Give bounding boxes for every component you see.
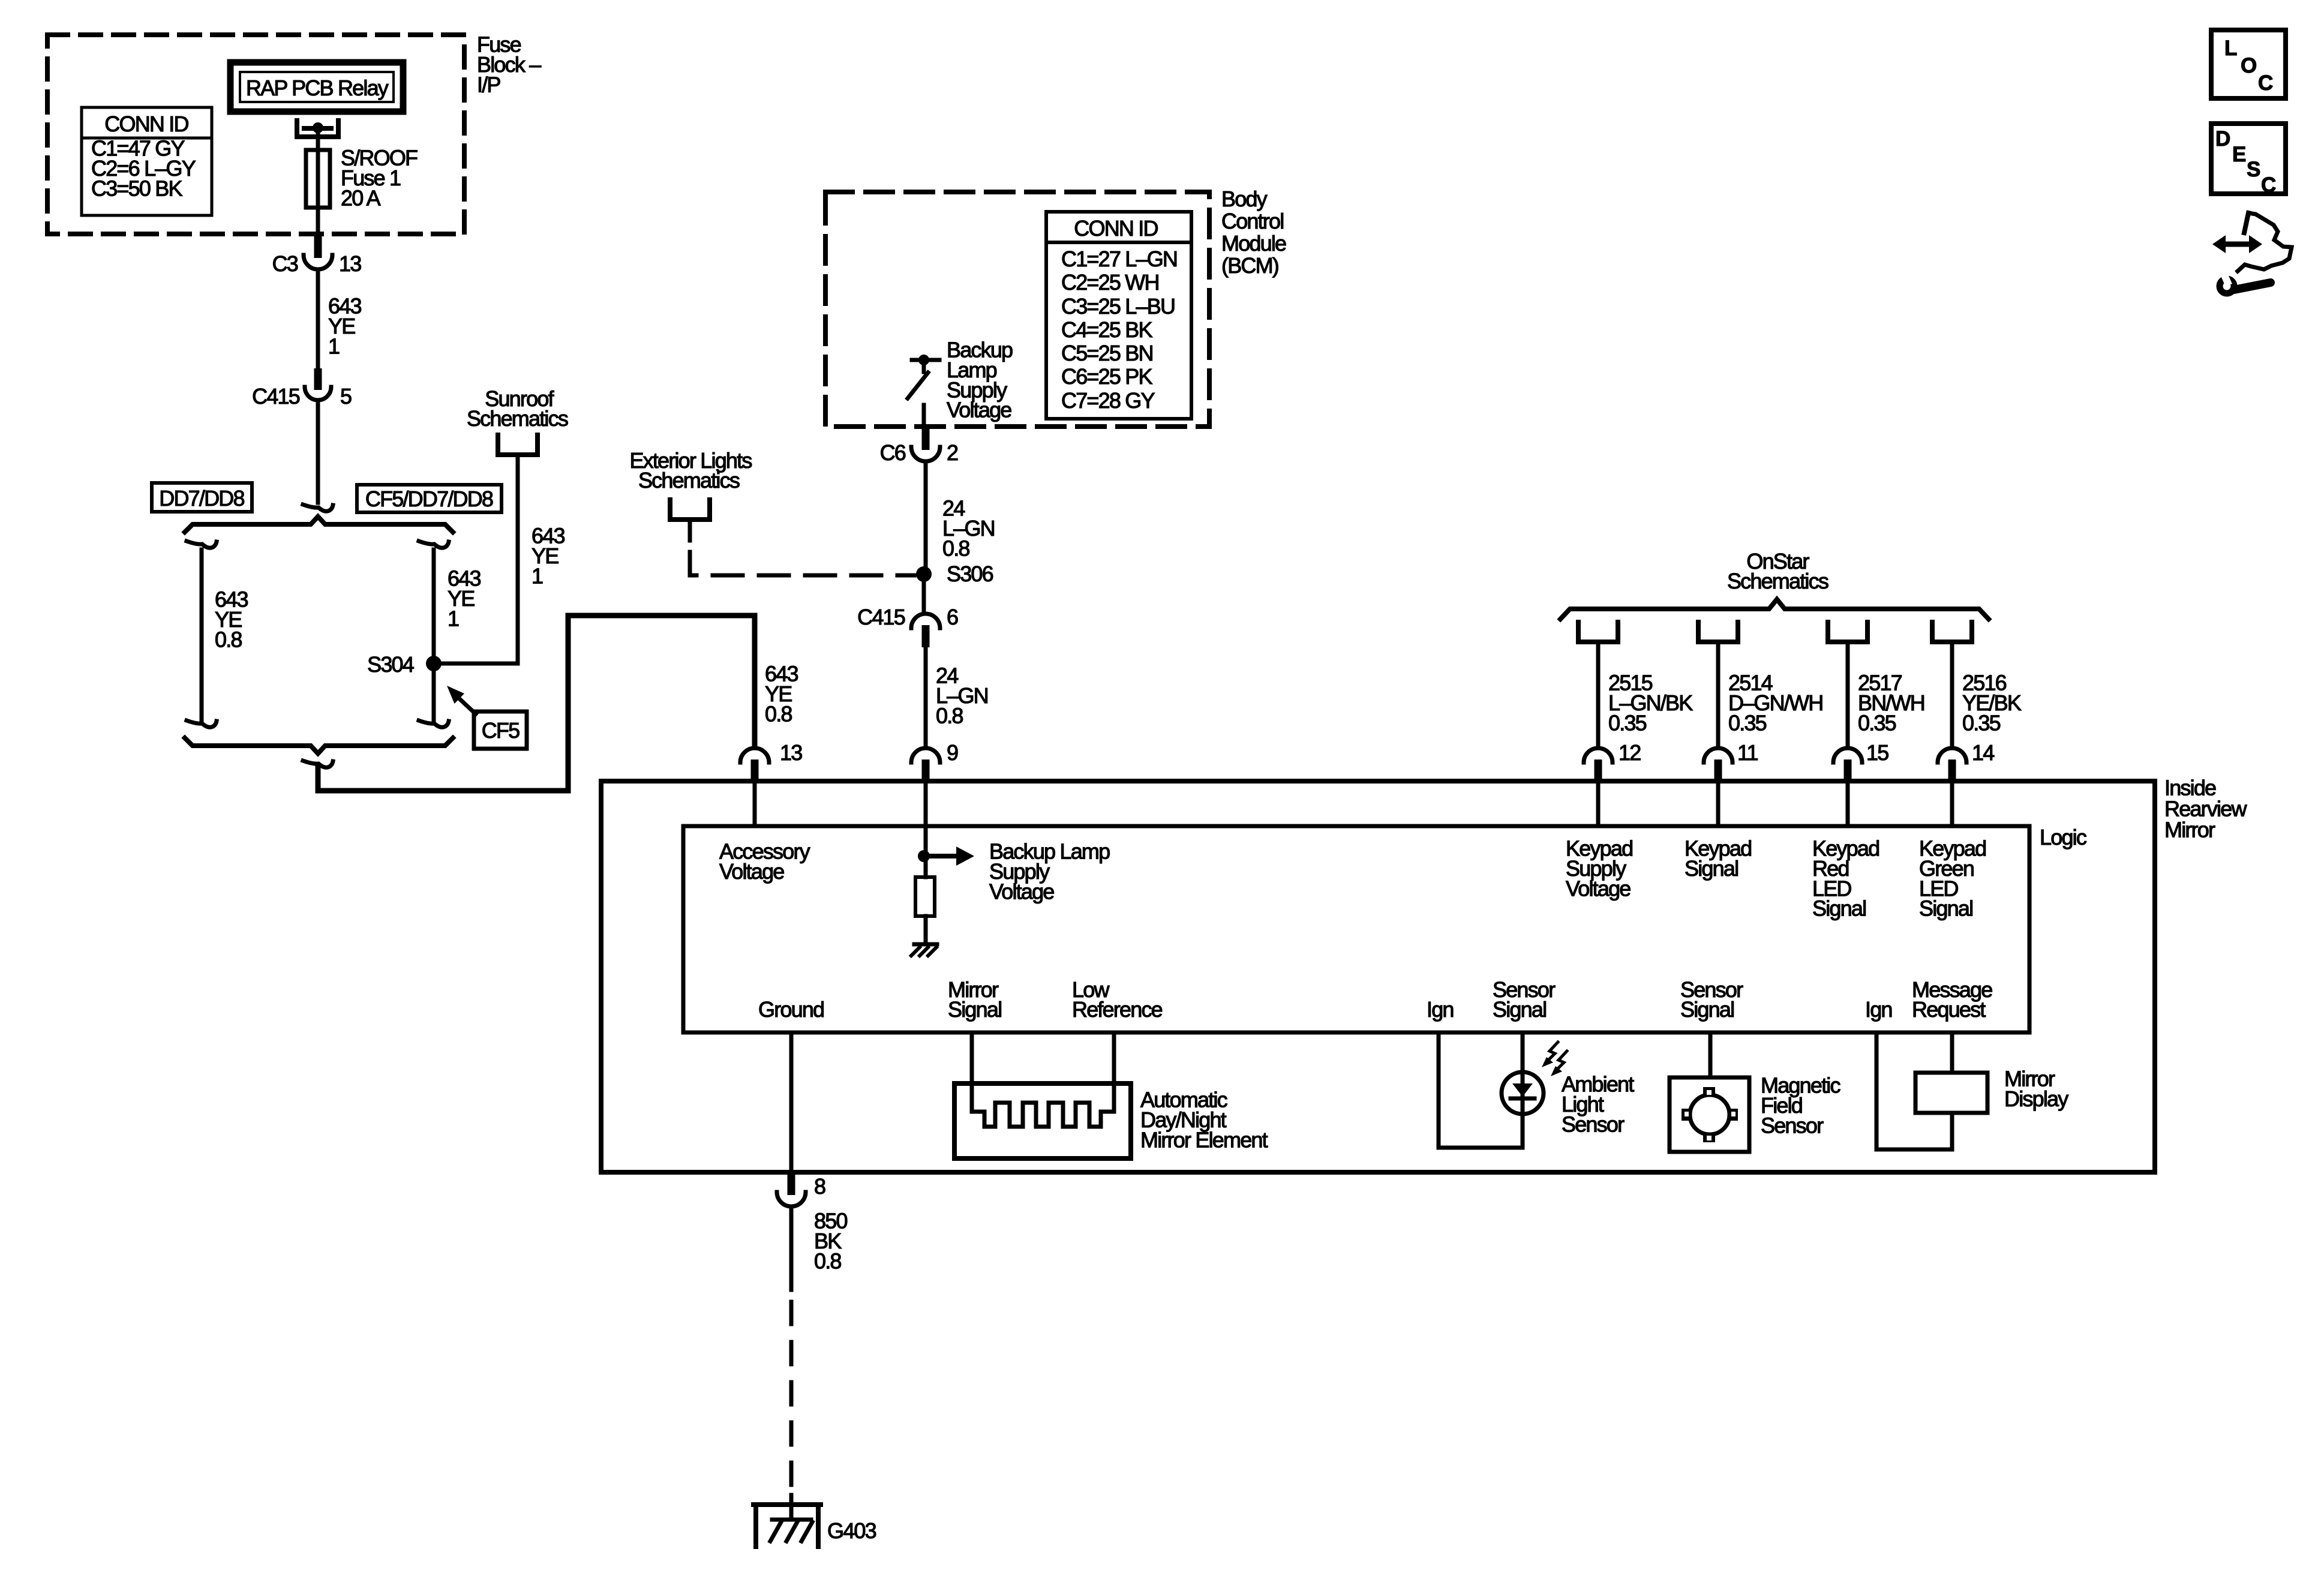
svg-text:12: 12	[1619, 740, 1641, 765]
label Low Reference	[1072, 977, 1163, 1022]
svg-text:CONN ID: CONN ID	[104, 112, 188, 136]
label Body Control Module (BCM)	[1221, 187, 1286, 278]
OnStar brace	[1560, 599, 1989, 619]
wire S304 to sunroof schematics	[434, 457, 518, 664]
label S/ROOF Fuse 1 20 A	[341, 146, 418, 211]
internal ground symbol	[911, 944, 937, 956]
svg-text:15: 15	[1866, 740, 1888, 765]
label Inside Rearview Mirror	[2164, 776, 2247, 842]
svg-text:CF5/DD7/DD8: CF5/DD7/DD8	[365, 487, 493, 511]
svg-text:C7=28 GY: C7=28 GY	[1061, 388, 1155, 413]
svg-text:Control: Control	[1221, 209, 1283, 233]
svg-text:C415: C415	[252, 384, 300, 409]
label Ambient Light Sensor	[1562, 1072, 1634, 1137]
label Ground	[758, 997, 824, 1022]
OnStar bracket (circuit 2515)	[1578, 622, 1618, 642]
label Ign (display)	[1865, 997, 1892, 1022]
wire resistor to internal ground	[924, 916, 928, 942]
svg-text:Mirror: Mirror	[2164, 818, 2215, 842]
connector C415 pin 6	[857, 605, 958, 647]
svg-text:DD7/DD8: DD7/DD8	[159, 486, 244, 511]
adjust mirror icon	[2212, 213, 2292, 293]
svg-text:CONN ID: CONN ID	[1074, 216, 1158, 241]
label Keypad Signal	[1685, 836, 1751, 881]
label Accessory Voltage	[719, 839, 810, 884]
mirror display box	[1915, 1032, 1987, 1149]
svg-text:C6=25 PK: C6=25 PK	[1061, 364, 1152, 389]
svg-text:L: L	[2224, 37, 2237, 60]
connector C3 pin 13	[272, 236, 362, 276]
svg-text:0.8: 0.8	[936, 703, 963, 728]
label 2514 D–GN/WH 0.35	[1728, 671, 1822, 736]
svg-text:6: 6	[947, 605, 958, 629]
label Backup Lamp Supply Voltage (logic)	[989, 839, 1110, 904]
svg-text:Voltage: Voltage	[1566, 876, 1631, 900]
splice S306	[916, 562, 993, 586]
label 643 YE 0.8 (accessory feed)	[765, 662, 798, 727]
pin 12 connector (mirror)	[1584, 740, 1641, 826]
dashed wire to S306	[690, 552, 914, 575]
svg-text:0.8: 0.8	[215, 627, 242, 652]
label Logic	[2040, 825, 2087, 849]
label Sensor Signal (ambient)	[1493, 977, 1556, 1022]
svg-text:Signal: Signal	[1812, 896, 1866, 921]
svg-text:Schematics: Schematics	[467, 406, 568, 431]
svg-text:13: 13	[339, 251, 361, 276]
wire 2516 YE/BK 0.35	[1950, 644, 1954, 745]
relay pin socket with junction dot	[297, 121, 338, 137]
magnetic field sensor	[1670, 1077, 1749, 1152]
wire 2517 BN/WH 0.35	[1846, 644, 1850, 745]
fuse block dashed box (Fuse Block - I/P)	[47, 35, 464, 234]
label 643 YE 1 (sunroof wire)	[532, 524, 565, 589]
label Message Request	[1912, 977, 1992, 1022]
splice S304	[367, 652, 442, 677]
OnStar bracket (circuit 2516)	[1932, 622, 1972, 642]
wire option DD7/DD8 (643 YE 0.8)	[187, 541, 217, 727]
label Backup Lamp Supply Voltage (switch)	[947, 338, 1013, 422]
label Fuse Block - I/P	[477, 32, 541, 97]
fuse block CONN ID table	[82, 107, 212, 215]
svg-text:1: 1	[532, 563, 543, 588]
svg-text:C3=25 L–BU: C3=25 L–BU	[1061, 294, 1175, 319]
pin 13 connector (mirror)	[740, 740, 802, 826]
svg-text:0.8: 0.8	[942, 536, 969, 560]
BCM dashed box (Body Control Module)	[825, 192, 1209, 427]
svg-text:C4=25 BK: C4=25 BK	[1061, 317, 1152, 342]
svg-text:Ign: Ign	[1865, 997, 1892, 1022]
label Exterior Lights Schematics	[629, 448, 752, 493]
label box DD7/DD8	[152, 483, 252, 512]
svg-text:S: S	[2247, 158, 2260, 181]
svg-text:0.8: 0.8	[814, 1248, 841, 1273]
svg-text:14: 14	[1972, 740, 1994, 765]
svg-text:Mirror Element: Mirror Element	[1140, 1127, 1268, 1152]
DESC icon box	[2211, 124, 2286, 197]
merge brace	[185, 738, 453, 767]
svg-text:C3=50 BK: C3=50 BK	[91, 176, 182, 200]
wires to mirror element + heater comb	[972, 1032, 1114, 1127]
svg-text:C: C	[2258, 71, 2273, 95]
Inside Rearview Mirror box	[601, 781, 2155, 1172]
label 2515 L–GN/BK 0.35	[1608, 671, 1693, 736]
LOC icon box	[2211, 30, 2286, 98]
svg-text:Signal: Signal	[1919, 896, 1972, 921]
wire merge to mirror pin 13	[318, 616, 755, 791]
label Automatic Day/Night Mirror Element	[1140, 1088, 1268, 1152]
svg-text:C415: C415	[857, 605, 905, 629]
svg-text:1: 1	[448, 606, 459, 631]
svg-text:Signal: Signal	[1680, 997, 1734, 1022]
label Keypad Red LED Signal	[1812, 836, 1879, 921]
svg-text:0.35: 0.35	[1608, 710, 1647, 735]
wire 2514 D–GN/WH 0.35	[1716, 644, 1721, 745]
svg-text:Sensor: Sensor	[1761, 1113, 1824, 1137]
label 643 YE 0.8	[215, 587, 248, 652]
wire below C415-5	[303, 402, 333, 511]
wire 24 L-GN 0.8 (C6 to S306)	[924, 463, 928, 566]
resistor (backup lamp feed)	[915, 877, 935, 916]
svg-text:Signal: Signal	[948, 997, 1001, 1022]
svg-text:S304: S304	[367, 652, 414, 677]
wire 24 L-GN 0.8 (to pin 9)	[924, 647, 928, 745]
wire 850 BK 0.8	[789, 1208, 794, 1290]
svg-text:Schematics: Schematics	[638, 468, 740, 493]
svg-text:C5=25 BN: C5=25 BN	[1061, 341, 1153, 365]
ambient light sensor (photodiode)	[1502, 1032, 1544, 1148]
label 24 L-GN 0.8	[942, 496, 995, 561]
svg-text:Signal: Signal	[1685, 856, 1738, 881]
svg-text:RAP PCB Relay: RAP PCB Relay	[246, 76, 389, 100]
svg-text:0.35: 0.35	[1858, 710, 1896, 735]
svg-text:Ground: Ground	[758, 997, 824, 1022]
pin 8 connector (ground)	[777, 1173, 825, 1206]
label Mirror Display	[2004, 1067, 2068, 1111]
svg-text:(BCM): (BCM)	[1221, 253, 1278, 278]
label OnStar Schematics	[1727, 549, 1828, 593]
label Keypad Supply Voltage	[1566, 836, 1632, 901]
svg-text:Reference: Reference	[1072, 997, 1163, 1022]
svg-text:E: E	[2232, 143, 2245, 166]
svg-text:8: 8	[814, 1174, 825, 1199]
svg-text:0.35: 0.35	[1728, 710, 1767, 735]
svg-text:Request: Request	[1912, 997, 1986, 1022]
ground wire inside mirror box	[789, 1032, 794, 1172]
svg-text:I/P: I/P	[477, 72, 500, 97]
pin 14 connector (mirror)	[1938, 740, 1994, 826]
junction dot + arrow Backup Lamp Supply Voltage	[918, 826, 974, 877]
OnStar bracket (circuit 2517)	[1828, 622, 1867, 642]
BCM CONN ID table	[1046, 212, 1191, 419]
svg-text:2: 2	[947, 440, 958, 465]
svg-text:S306: S306	[947, 562, 993, 586]
options brace (DD7/DD8 vs CF5/DD7/DD8)	[185, 517, 453, 532]
label Sunroof Schematics	[467, 386, 568, 431]
wire Ign to display bottom	[1876, 1032, 1952, 1149]
wire option CF5/DD7/DD8 (643 YE 1)	[419, 541, 449, 727]
connector C6 pin 2	[880, 428, 958, 465]
pin 9 connector (mirror)	[911, 740, 958, 826]
exterior lights bracket	[670, 500, 710, 541]
svg-text:5: 5	[340, 384, 352, 409]
svg-text:Voltage: Voltage	[989, 879, 1054, 903]
svg-text:Voltage: Voltage	[719, 859, 784, 884]
svg-text:Display: Display	[2004, 1086, 2068, 1111]
svg-text:13: 13	[780, 740, 802, 765]
wire relay to fuse	[316, 128, 320, 150]
svg-text:1: 1	[328, 334, 340, 358]
svg-text:Module: Module	[1221, 231, 1286, 256]
svg-text:G403: G403	[827, 1518, 876, 1543]
svg-text:0.35: 0.35	[1962, 710, 2001, 735]
svg-text:D: D	[2215, 127, 2230, 151]
svg-text:Signal: Signal	[1493, 997, 1546, 1022]
backup lamp switch (in BCM)	[908, 355, 939, 430]
wire S306 to C415-6	[922, 574, 926, 611]
label Ign (ambient)	[1427, 997, 1454, 1022]
svg-text:Body: Body	[1221, 187, 1268, 211]
pin 11 connector (mirror)	[1704, 740, 1758, 826]
wire 2515 L–GN/BK 0.35	[1596, 644, 1601, 745]
svg-text:C: C	[2261, 173, 2276, 197]
svg-text:Ign: Ign	[1427, 997, 1454, 1022]
wire to magnetic field sensor	[1709, 1032, 1713, 1077]
label 24 L-GN 0.8 (lower)	[936, 664, 988, 728]
wire Ign to sensor bottom	[1439, 1032, 1523, 1148]
svg-text:Sensor: Sensor	[1562, 1112, 1625, 1136]
OnStar bracket (circuit 2514)	[1698, 622, 1738, 642]
svg-text:C3: C3	[272, 251, 298, 276]
relay name box RAP PCB Relay	[230, 62, 403, 112]
pin 15 connector (mirror)	[1833, 740, 1888, 826]
svg-text:Schematics: Schematics	[1727, 569, 1828, 593]
label Keypad Green LED Signal	[1919, 836, 1986, 921]
svg-text:C6: C6	[880, 440, 906, 465]
svg-text:0.8: 0.8	[765, 701, 792, 726]
automatic day/night mirror element box	[954, 1083, 1131, 1158]
sunroof schematics bracket	[498, 435, 538, 455]
svg-text:11: 11	[1737, 740, 1758, 765]
label 643 YE 1	[328, 294, 361, 359]
label box CF5/DD7/DD8	[357, 485, 502, 512]
Logic box	[683, 826, 2029, 1032]
svg-text:CF5: CF5	[482, 718, 520, 743]
callout CF5 with arrow	[447, 686, 527, 749]
svg-text:O: O	[2241, 54, 2256, 77]
label Magnetic Field Sensor	[1761, 1073, 1840, 1138]
svg-text:Voltage: Voltage	[947, 398, 1011, 422]
svg-text:20 A: 20 A	[341, 185, 381, 210]
dashed ground wire	[789, 1302, 794, 1495]
label 2517 BN/WH 0.35	[1858, 671, 1924, 736]
light arrows	[1542, 1042, 1567, 1076]
label Sensor Signal (magnetic)	[1680, 977, 1743, 1022]
svg-text:Logic: Logic	[2040, 825, 2087, 849]
label 643 YE 1 (right option)	[448, 566, 481, 631]
ground G403	[753, 1495, 876, 1547]
wire 643 YE 1 (C3 to C415)	[316, 271, 320, 369]
connector C415 pin 5	[252, 368, 352, 409]
fuse F1 S/ROOF 20A	[306, 150, 330, 234]
svg-text:C2=25 WH: C2=25 WH	[1061, 270, 1159, 295]
label 2516 YE/BK 0.35	[1962, 671, 2022, 736]
svg-text:9: 9	[947, 740, 958, 765]
label Mirror Signal	[948, 977, 1001, 1022]
label 850 BK 0.8	[814, 1209, 847, 1274]
svg-text:C1=27 L–GN: C1=27 L–GN	[1061, 247, 1177, 271]
